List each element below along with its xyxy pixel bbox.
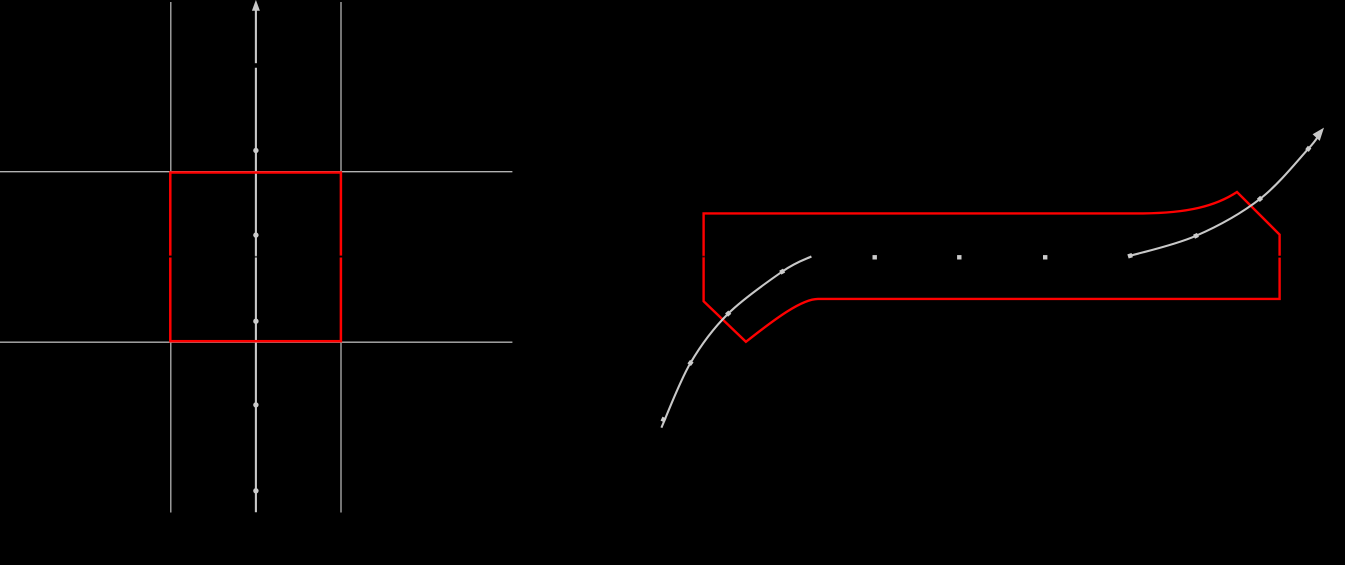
spine parameter dot 5: [253, 488, 258, 493]
curve marker dot m1: [873, 255, 877, 259]
curve marker dot a1: [661, 417, 667, 423]
curve marker dot a4: [779, 269, 785, 275]
curve marker dot b2: [1193, 233, 1199, 239]
spine axis line (vertical, with gap): [255, 9, 257, 64]
black notch ticks at mid height of left figure: [168, 256, 173, 258]
spine parameter dot 4: [253, 402, 258, 407]
curve marker dot a2: [687, 360, 693, 366]
grid vertical line left: [170, 2, 172, 513]
spine parameter dot 2: [253, 232, 258, 237]
spine parameter dot 3: [253, 319, 258, 324]
curve marker dot b4: [1305, 146, 1311, 152]
curve arrowhead: [1313, 128, 1324, 141]
curve marker dot b3: [1257, 196, 1263, 202]
black notch on slab right edge: [1277, 256, 1281, 258]
curve marker dot b1: [1127, 253, 1132, 258]
curve marker dot a3: [725, 310, 731, 316]
bent spine curve: left piece: [661, 257, 811, 428]
red square: [170, 173, 341, 342]
spine arrowhead: [252, 0, 260, 11]
grid vertical line right: [340, 2, 342, 513]
curve marker dot m2: [957, 255, 961, 259]
grid horizontal line bottom: [0, 341, 512, 343]
grid horizontal line top: [0, 171, 512, 173]
black notch on slab left edge: [702, 256, 704, 258]
red deformed slab: [704, 192, 1280, 342]
bent spine curve: right piece: [1130, 137, 1317, 256]
spine parameter dot 1: [253, 148, 258, 153]
curve marker dot m3: [1043, 255, 1047, 259]
